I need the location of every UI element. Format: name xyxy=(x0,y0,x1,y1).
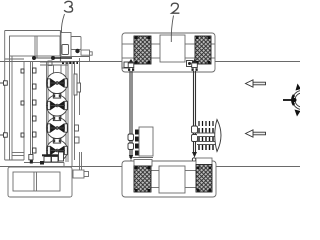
left rail bottom tip xyxy=(129,155,133,160)
machine 3 inner top box xyxy=(10,36,61,58)
roller R1 xyxy=(46,72,68,93)
roller connector 3-4 xyxy=(53,139,60,144)
cart bottom central box xyxy=(159,166,185,193)
roller connector 2-3 xyxy=(53,116,60,121)
carriage box xyxy=(139,127,153,156)
cart pad top-left xyxy=(134,36,151,64)
tick boxes on post xyxy=(21,69,24,137)
right rail slider xyxy=(192,126,198,142)
machine 3 head dot xyxy=(75,49,79,53)
base foot tab xyxy=(73,170,89,178)
cart pad top-right xyxy=(195,36,211,64)
machine 3 beam dots xyxy=(32,56,36,60)
machine 3 tick rail xyxy=(31,62,33,162)
motor fin dashes xyxy=(199,121,213,126)
carriage base line xyxy=(133,157,153,159)
roller bottom box xyxy=(42,152,64,162)
left edge arrow 1 xyxy=(0,81,7,85)
right guide rail xyxy=(194,71,196,152)
roller connector 1-2 xyxy=(53,94,60,99)
cart top-left bracket xyxy=(122,59,134,71)
label 2 xyxy=(171,3,179,13)
floor line xyxy=(0,166,300,168)
right rail foot rings xyxy=(192,158,195,165)
drive wheel xyxy=(292,84,311,117)
cart top central box xyxy=(160,35,185,62)
carriage teeth xyxy=(135,130,139,156)
machine 3 lower step xyxy=(24,155,64,168)
machine 3 lower shelf plates xyxy=(12,153,24,156)
machine 3 base xyxy=(8,167,72,197)
label 2 leader xyxy=(171,16,173,43)
left edge arrow 2 xyxy=(0,133,7,137)
roller frame notch xyxy=(48,61,52,66)
motor lens xyxy=(215,120,221,152)
right wall bump 1 xyxy=(77,83,81,92)
machine 3 right wall xyxy=(72,58,82,170)
roller frame xyxy=(40,62,68,162)
left guide rail xyxy=(130,71,132,158)
motor fins xyxy=(199,128,213,150)
left rail foot diamond xyxy=(128,160,133,165)
flow arrow lower xyxy=(246,130,266,137)
machine 3 interior dark beam xyxy=(34,57,53,59)
roller R2 xyxy=(46,95,68,116)
tick boxes on rail xyxy=(33,68,37,153)
overhead rail line xyxy=(0,61,300,63)
roller chain lines xyxy=(54,65,62,160)
machine 3 head shelf xyxy=(71,50,92,62)
right rail bottom tip xyxy=(192,152,197,158)
cart bottom-right mount bar xyxy=(196,158,212,165)
cart top-right bracket xyxy=(187,59,198,71)
left rail slider xyxy=(128,134,134,150)
machine 3 outer frame xyxy=(5,31,61,161)
machine 3 head side box xyxy=(71,37,81,50)
flow arrow upper xyxy=(246,80,266,87)
cart bottom connecting bars xyxy=(151,171,196,188)
cart bottom assembly outer frame xyxy=(122,161,216,197)
right wall bump 3 xyxy=(75,137,80,143)
machine 3 head window xyxy=(62,45,69,55)
machine 3 head column xyxy=(61,31,72,62)
label 3 xyxy=(64,1,72,12)
cart top assembly outer frame xyxy=(122,33,215,72)
roller R4 xyxy=(46,140,68,161)
label 3 leader xyxy=(61,14,64,33)
roller R3 xyxy=(46,117,68,138)
cart pad bottom-left xyxy=(134,166,151,192)
right wall bump 2 xyxy=(75,125,79,131)
cart bottom-left mount bar xyxy=(134,160,152,167)
cart top connecting bars xyxy=(122,44,215,58)
motor bands xyxy=(197,133,215,145)
drive shaft xyxy=(283,99,294,101)
machine 3 head mounting dashes xyxy=(62,62,78,64)
machine 3 interior post xyxy=(23,62,25,160)
right wall slot xyxy=(74,74,77,95)
cart pad bottom-right xyxy=(196,165,212,193)
